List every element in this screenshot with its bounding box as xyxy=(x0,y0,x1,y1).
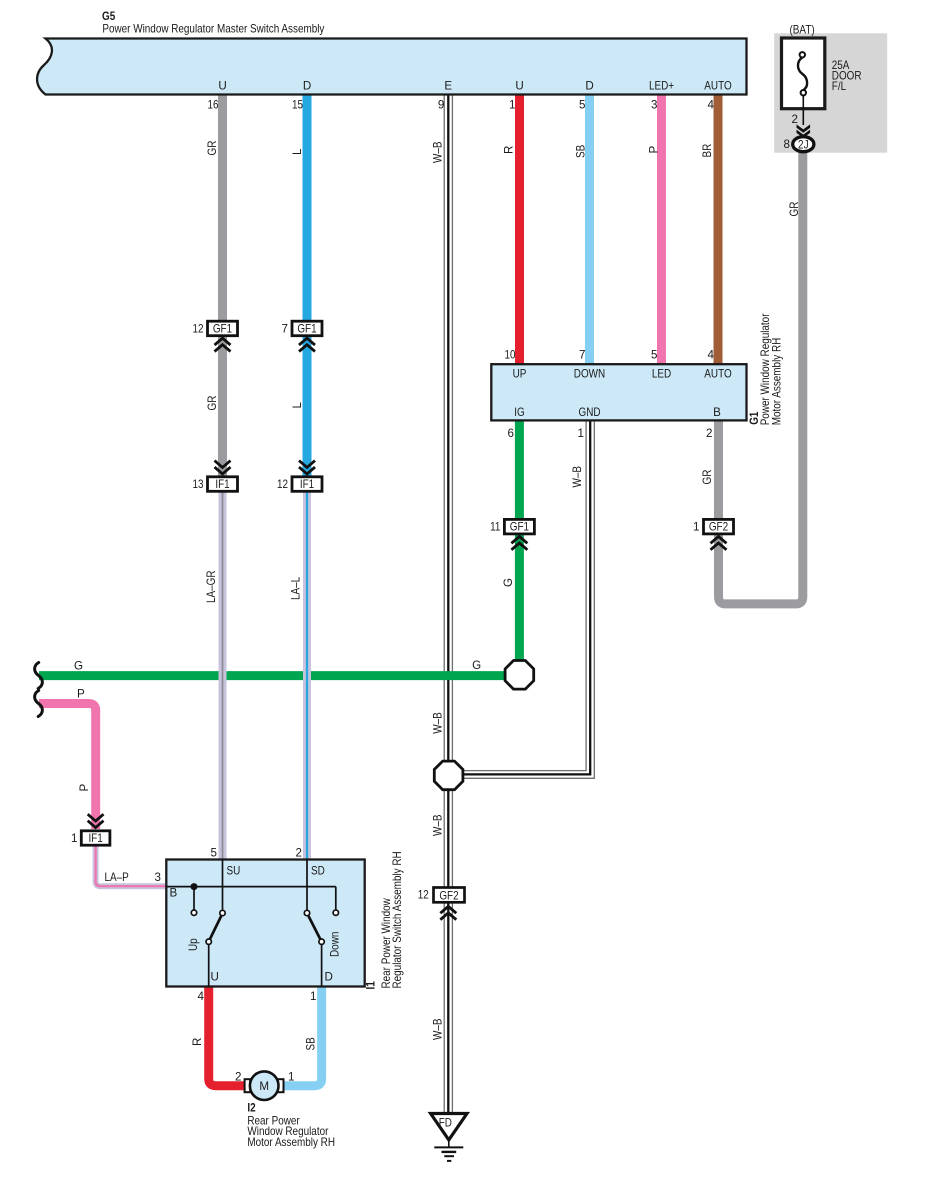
svg-text:11: 11 xyxy=(490,521,500,534)
connector 11 GF1 xyxy=(490,519,534,549)
svg-text:GF2: GF2 xyxy=(709,521,728,534)
fuse panel shaded area xyxy=(774,33,887,152)
svg-text:UP: UP xyxy=(513,368,527,381)
svg-text:1: 1 xyxy=(71,832,77,845)
I1 down switch xyxy=(304,860,341,987)
svg-text:2: 2 xyxy=(792,113,798,126)
svg-text:B: B xyxy=(713,406,721,419)
svg-text:7: 7 xyxy=(282,323,288,336)
svg-text:L: L xyxy=(291,402,304,409)
wire LA-P from IF1 to I1 pin 3 xyxy=(96,845,167,886)
svg-text:5: 5 xyxy=(651,349,657,362)
svg-text:12: 12 xyxy=(418,888,429,901)
svg-text:1: 1 xyxy=(288,1071,294,1084)
svg-text:GF1: GF1 xyxy=(297,323,316,336)
svg-text:GF1: GF1 xyxy=(213,323,232,336)
svg-text:LED+: LED+ xyxy=(649,80,674,93)
svg-text:U: U xyxy=(515,80,523,93)
wire R from I1 pin 4 U to motor xyxy=(209,987,246,1086)
svg-text:1: 1 xyxy=(578,427,584,440)
svg-text:GND: GND xyxy=(579,406,601,419)
I1 up switch xyxy=(187,860,225,987)
svg-text:LA–P: LA–P xyxy=(105,871,130,884)
svg-text:Motor Assembly RH: Motor Assembly RH xyxy=(247,1136,335,1149)
block G5 Power Window Regulator Master Switch Assembly xyxy=(37,39,746,95)
G5 pin labels xyxy=(218,80,731,93)
svg-text:IF1: IF1 xyxy=(88,832,102,845)
svg-text:DOWN: DOWN xyxy=(574,368,605,381)
svg-text:B: B xyxy=(170,887,178,900)
fuse output arrow xyxy=(792,113,811,138)
svg-text:12: 12 xyxy=(277,478,288,491)
ground FD xyxy=(431,1114,467,1161)
svg-text:G: G xyxy=(502,578,515,587)
svg-text:4: 4 xyxy=(708,99,715,112)
G5 pin numbers xyxy=(208,99,715,112)
wire GR from G5 pin 16 U xyxy=(218,94,227,478)
fuse 25A DOOR F/L xyxy=(782,23,862,125)
svg-text:W–B: W–B xyxy=(431,1018,444,1040)
connector 1 GF2 xyxy=(693,519,733,549)
svg-text:FD: FD xyxy=(439,1117,452,1130)
svg-text:AUTO: AUTO xyxy=(704,80,731,93)
svg-text:E: E xyxy=(444,80,452,93)
svg-text:I1: I1 xyxy=(365,981,378,990)
svg-text:W–B: W–B xyxy=(431,712,444,734)
continuation squiggle for P wire xyxy=(35,691,43,717)
wire BR from G5 pin 4 AUTO to G1 AUTO xyxy=(714,94,723,365)
G1 pin numbers xyxy=(505,349,715,440)
wire P from continuation to IF1 xyxy=(39,704,96,830)
connector 12 GF1 xyxy=(193,321,238,351)
connector 7 GF1 xyxy=(282,321,322,351)
I1 internal B bus xyxy=(166,883,335,910)
I1 designator label xyxy=(365,851,404,989)
wire SB from G5 pin 5 D to G1 DOWN xyxy=(585,94,594,365)
svg-text:IG: IG xyxy=(514,406,525,419)
svg-text:GR: GR xyxy=(206,396,219,411)
wire R from G5 pin 1 U to G1 UP xyxy=(515,94,524,365)
svg-text:W–B: W–B xyxy=(571,466,584,488)
svg-text:R: R xyxy=(503,146,516,154)
wire G horizontal bus xyxy=(39,671,519,680)
svg-text:D: D xyxy=(585,80,593,93)
svg-text:8: 8 xyxy=(784,138,790,151)
svg-text:SD: SD xyxy=(311,865,325,878)
wire SB from I1 pin 1 D to motor xyxy=(282,987,322,1086)
svg-text:M: M xyxy=(259,1080,269,1093)
junction octagon W-B xyxy=(434,761,463,790)
wire LA-GR from IF1 to I1 pin 5 xyxy=(219,491,227,860)
wire labels rotated xyxy=(78,141,801,1051)
svg-text:GR: GR xyxy=(701,470,714,485)
svg-text:13: 13 xyxy=(193,478,204,491)
svg-text:2J: 2J xyxy=(798,138,809,151)
I2 designator label xyxy=(247,1102,335,1150)
connector 12 GF2 xyxy=(418,888,465,920)
svg-text:W–B: W–B xyxy=(431,141,444,163)
svg-text:LA–GR: LA–GR xyxy=(205,571,218,604)
svg-text:LA–L: LA–L xyxy=(290,576,303,600)
svg-text:LED: LED xyxy=(652,368,671,381)
svg-text:SB: SB xyxy=(304,1037,317,1050)
svg-text:2: 2 xyxy=(235,1071,241,1084)
svg-text:SB: SB xyxy=(575,145,588,158)
svg-text:1: 1 xyxy=(310,990,316,1003)
wire G from G1 pin IG down to junction xyxy=(515,421,524,676)
svg-text:G: G xyxy=(74,659,83,672)
svg-text:5: 5 xyxy=(579,99,585,112)
svg-text:F/L: F/L xyxy=(832,80,847,93)
svg-text:1: 1 xyxy=(509,99,515,112)
wire W-B from G5 pin 9 E xyxy=(444,94,452,1113)
svg-text:2: 2 xyxy=(296,847,302,860)
svg-text:D: D xyxy=(325,971,333,984)
svg-text:P: P xyxy=(648,146,661,154)
svg-text:15: 15 xyxy=(292,99,303,112)
svg-text:L: L xyxy=(291,148,304,155)
wire W-B from G1 GND down to junction xyxy=(461,421,594,779)
svg-text:Regulator Switch Assembly RH: Regulator Switch Assembly RH xyxy=(391,851,404,988)
svg-text:2: 2 xyxy=(706,427,712,440)
connector 12 IF1 xyxy=(277,461,322,492)
svg-text:Down: Down xyxy=(329,932,342,957)
svg-text:16: 16 xyxy=(208,99,219,112)
svg-text:D: D xyxy=(303,80,311,93)
connector 1 IF1 xyxy=(71,814,110,845)
svg-text:3: 3 xyxy=(155,871,161,884)
block I1 Rear Power Window Regulator Switch Assembly RH xyxy=(166,860,364,987)
motor I2 xyxy=(235,1071,294,1100)
svg-text:6: 6 xyxy=(508,427,514,440)
svg-text:U: U xyxy=(218,80,226,93)
svg-text:GF1: GF1 xyxy=(510,521,529,534)
svg-text:(BAT): (BAT) xyxy=(790,23,815,36)
svg-text:3: 3 xyxy=(651,99,657,112)
svg-text:SU: SU xyxy=(227,865,241,878)
svg-text:W–B: W–B xyxy=(431,814,444,836)
G1 designator label xyxy=(748,313,783,425)
svg-text:U: U xyxy=(211,971,219,984)
svg-text:BR: BR xyxy=(701,144,714,158)
svg-text:Motor Assembly RH: Motor Assembly RH xyxy=(771,338,784,426)
svg-text:12: 12 xyxy=(193,323,204,336)
block G1 Power Window Regulator Motor Assembly RH xyxy=(491,364,746,420)
wire LA-L from IF1 to I1 pin 2 xyxy=(303,491,311,860)
I1 pin numbers xyxy=(155,847,317,1004)
svg-text:Up: Up xyxy=(187,938,200,951)
svg-text:4: 4 xyxy=(708,349,715,362)
svg-text:GR: GR xyxy=(206,141,219,156)
svg-text:5: 5 xyxy=(211,847,217,860)
svg-text:P: P xyxy=(77,687,85,700)
connector 2J xyxy=(784,137,814,152)
node labels xyxy=(74,659,481,884)
svg-text:I2: I2 xyxy=(247,1102,255,1115)
svg-text:4: 4 xyxy=(198,990,205,1003)
svg-text:10: 10 xyxy=(505,349,516,362)
svg-text:AUTO: AUTO xyxy=(704,368,731,381)
svg-text:9: 9 xyxy=(438,99,444,112)
svg-text:GR: GR xyxy=(788,202,801,217)
svg-text:IF1: IF1 xyxy=(215,478,229,491)
svg-text:Power Window Regulator Master: Power Window Regulator Master Switch Ass… xyxy=(102,23,324,36)
wire GR from battery 2J down and wire GR from G1 pin B xyxy=(719,151,803,604)
svg-text:GF2: GF2 xyxy=(439,889,458,902)
junction octagon G xyxy=(505,661,534,690)
svg-text:7: 7 xyxy=(579,349,585,362)
svg-text:1: 1 xyxy=(693,521,699,534)
svg-text:P: P xyxy=(78,784,91,792)
svg-text:G5: G5 xyxy=(102,10,116,23)
wire P from G5 pin 3 LED+ to G1 LED xyxy=(657,94,666,365)
svg-text:R: R xyxy=(191,1038,204,1046)
continuation squiggle for G wire xyxy=(35,663,43,689)
svg-text:G: G xyxy=(472,659,481,672)
connector 13 IF1 xyxy=(193,461,238,492)
svg-text:IF1: IF1 xyxy=(300,478,314,491)
wire L from G5 pin 15 D xyxy=(303,94,312,478)
